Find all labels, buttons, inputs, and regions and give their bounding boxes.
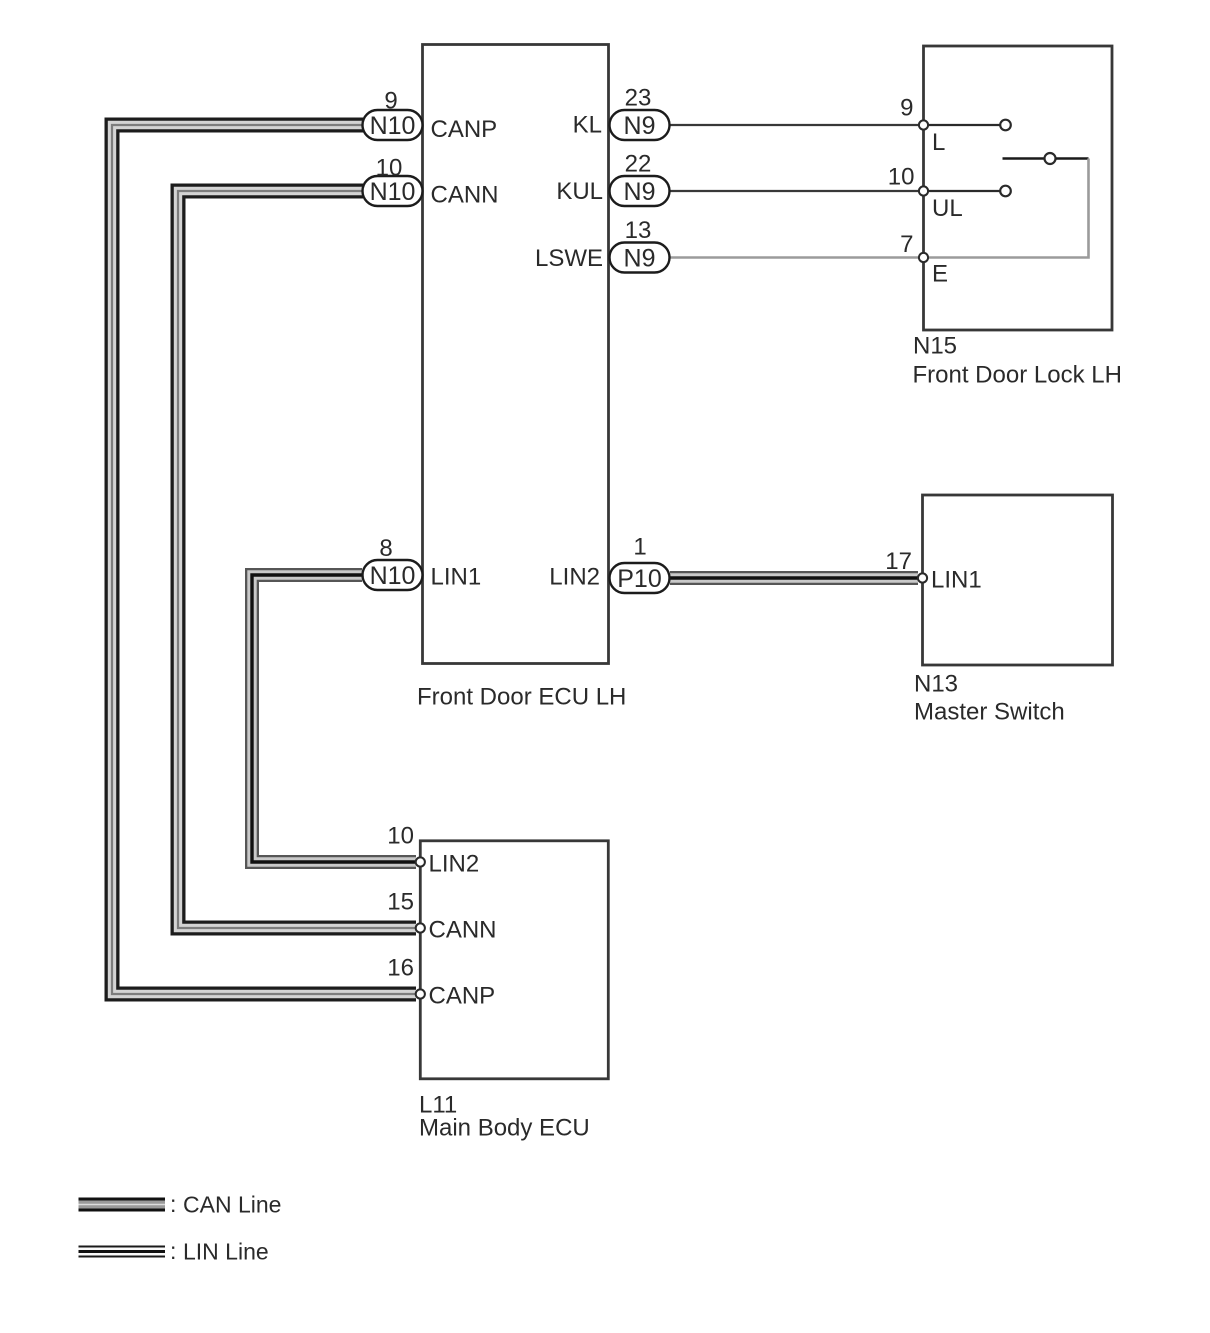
svg-text:23: 23: [625, 85, 652, 112]
svg-text:Front Door ECU LH: Front Door ECU LH: [417, 684, 626, 711]
connector oval N10 pin9: [363, 110, 423, 140]
svg-text:CAN Line: CAN Line: [183, 1192, 281, 1218]
svg-text:LIN2: LIN2: [549, 564, 600, 591]
svg-text:16: 16: [387, 955, 414, 982]
svg-text:Master Switch: Master Switch: [914, 699, 1065, 726]
pin circle L11 pin10: [416, 857, 425, 866]
svg-text:LIN1: LIN1: [931, 567, 982, 594]
wire LSWE (ECU N9 pin13 to Door Lock pin7, gray): [670, 256, 919, 259]
pin circle N15 pin7: [919, 253, 928, 262]
svg-text:Main Body ECU: Main Body ECU: [419, 1115, 590, 1142]
svg-text:10: 10: [387, 823, 414, 850]
connector oval N9 pin22: [610, 176, 670, 206]
svg-text:N10: N10: [370, 562, 416, 590]
box U1 Front Door ECU LH: [423, 45, 609, 664]
switch contact UL circle: [1000, 186, 1011, 197]
wire CANP (CAN line from ECU N10 pin9 to Main Body ECU pin16): [112, 125, 416, 994]
svg-text:N13: N13: [914, 671, 958, 698]
wire KUL (ECU N9 pin22 to Door Lock pin10): [670, 190, 919, 192]
svg-text:CANN: CANN: [431, 182, 499, 209]
svg-text:N10: N10: [370, 112, 416, 140]
svg-text:13: 13: [625, 217, 652, 244]
svg-text:LSWE: LSWE: [535, 245, 603, 272]
pin circle L11 pin16: [416, 989, 425, 998]
switch contact UL line (inside N15): [928, 190, 1000, 192]
svg-text:N9: N9: [624, 178, 656, 206]
svg-text:15: 15: [387, 889, 414, 916]
switch lever link to E: [1056, 157, 1089, 160]
wire LIN1 (LIN line from ECU N10 pin8 to Main Body ECU pin10): [252, 575, 416, 862]
pin circle L11 pin15: [416, 923, 425, 932]
wire LIN2 (LIN line from ECU P10 pin1 to Master Switch pin17): [670, 571, 918, 585]
svg-text:LIN Line: LIN Line: [183, 1239, 269, 1265]
svg-text:KUL: KUL: [556, 178, 603, 205]
svg-text:KL: KL: [573, 112, 602, 139]
legend CAN line sample: [79, 1198, 166, 1212]
switch contact L line (inside N15): [928, 124, 1000, 126]
switch contact L circle: [1000, 120, 1011, 131]
box N13 Master Switch: [923, 495, 1113, 665]
pin circle N15 pin10: [919, 186, 928, 195]
svg-text::: :: [170, 1191, 176, 1217]
svg-text:Front Door Lock LH: Front Door Lock LH: [913, 362, 1122, 389]
svg-text:N10: N10: [370, 178, 416, 206]
svg-text:L: L: [932, 129, 945, 156]
svg-text:N15: N15: [913, 333, 957, 360]
svg-text:N9: N9: [624, 112, 656, 140]
svg-text:N9: N9: [624, 245, 656, 273]
connector oval N10 pin8: [363, 560, 423, 590]
wire KL (ECU N9 pin23 to Door Lock pin9): [670, 124, 919, 126]
svg-text:E: E: [932, 261, 948, 288]
svg-text:CANP: CANP: [431, 116, 498, 143]
switch lever arm: [1003, 157, 1045, 160]
svg-text:9: 9: [900, 95, 913, 122]
svg-text:P10: P10: [617, 565, 661, 593]
switch lever pivot circle: [1045, 153, 1056, 164]
legend LIN line sample: [79, 1246, 166, 1258]
wire CANN (CAN line from ECU N10 pin10 to Main Body ECU pin15): [178, 191, 416, 928]
connector oval N9 pin13: [610, 243, 670, 273]
svg-text:LIN1: LIN1: [431, 564, 482, 591]
svg-text:7: 7: [900, 231, 913, 258]
svg-text::: :: [170, 1238, 176, 1264]
pin circle N15 pin9: [919, 120, 928, 129]
box L11 Main Body ECU: [420, 841, 608, 1079]
connector oval N9 pin23: [610, 110, 670, 140]
svg-text:8: 8: [379, 535, 392, 562]
svg-text:CANP: CANP: [429, 983, 496, 1010]
svg-text:22: 22: [625, 151, 652, 178]
connector oval N10 pin10: [363, 176, 423, 206]
connector oval P10 pin1: [610, 563, 670, 593]
svg-text:10: 10: [376, 155, 403, 182]
pin circle N13 pin17: [918, 573, 927, 582]
gray wire lever to pin E: [925, 159, 1089, 258]
svg-text:LIN2: LIN2: [429, 851, 480, 878]
box N15 Front Door Lock LH: [924, 46, 1113, 330]
svg-text:UL: UL: [932, 195, 963, 222]
svg-text:10: 10: [888, 164, 915, 191]
svg-text:CANN: CANN: [429, 917, 497, 944]
svg-text:1: 1: [633, 534, 646, 561]
svg-text:17: 17: [885, 548, 912, 575]
svg-text:9: 9: [384, 88, 397, 115]
